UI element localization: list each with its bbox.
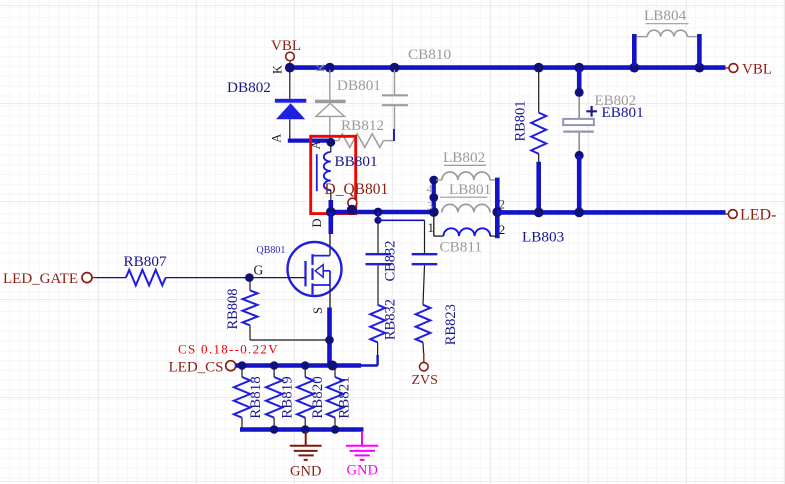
svg-text:K: K xyxy=(271,65,285,74)
svg-text:VBL: VBL xyxy=(271,38,301,54)
junction LED- at EB801 xyxy=(574,208,584,218)
junction LB right bus xyxy=(492,207,502,217)
resistor RB801 xyxy=(513,70,547,162)
svg-text:EB801: EB801 xyxy=(602,104,644,121)
wire DB802 anode to BB801 xyxy=(288,139,331,143)
svg-text:ZVS: ZVS xyxy=(412,373,438,388)
junction GND bus x=305.2 xyxy=(301,425,310,434)
svg-text:CS 0.18--0.22V: CS 0.18--0.22V xyxy=(178,342,279,357)
junction LED- at RB801 xyxy=(534,208,544,218)
resistor RB832 xyxy=(370,299,398,356)
ground GND (magenta) xyxy=(346,431,378,460)
svg-text:BB801: BB801 xyxy=(335,153,378,170)
junction GND bus x=274.1 xyxy=(270,425,279,434)
junction sub-wire CB832 xyxy=(374,217,381,224)
diode DB801 (DNP) xyxy=(313,63,381,139)
svg-text:3: 3 xyxy=(427,199,433,213)
resistor RB820 xyxy=(297,368,326,430)
wire LB right tie xyxy=(495,178,500,239)
inductor LB801 (DNP) xyxy=(427,181,505,213)
svg-text:LED_CS: LED_CS xyxy=(169,360,224,376)
resistor RB819 xyxy=(266,368,295,430)
svg-text:RB820: RB820 xyxy=(310,376,326,419)
junction LB left top xyxy=(429,176,438,185)
wire QB801 source xyxy=(327,308,332,366)
resistor RB808 xyxy=(225,278,258,340)
resistor RB823 xyxy=(416,304,459,353)
svg-text:LB803: LB803 xyxy=(522,229,564,246)
junction LB left mid xyxy=(429,193,438,202)
highlight box (red) around BB801 xyxy=(311,136,356,213)
svg-text:DB801: DB801 xyxy=(337,77,381,94)
junction GND bus x=335 xyxy=(331,425,340,434)
port D_QB801 xyxy=(348,198,357,210)
svg-text:RB832: RB832 xyxy=(383,299,399,340)
port LED_GATE xyxy=(3,271,97,287)
inductor LB804 (DNP) xyxy=(637,7,698,37)
wire LB804 right stub xyxy=(697,34,702,66)
resistor RB812 (DNP) xyxy=(331,117,394,147)
svg-text:RB808: RB808 xyxy=(225,288,241,329)
svg-text:G: G xyxy=(254,262,264,277)
svg-text:RB819: RB819 xyxy=(279,376,295,419)
wire sub-branch caps xyxy=(378,212,425,253)
wire RB808 to source xyxy=(250,339,330,341)
svg-text:RB801: RB801 xyxy=(513,100,529,141)
wire LB804 left stub xyxy=(632,34,637,66)
svg-text:RB818: RB818 xyxy=(248,376,264,419)
wire RB807 to gate xyxy=(166,277,306,279)
wire drain bus xyxy=(329,210,434,215)
svg-text:1: 1 xyxy=(428,220,435,235)
inductor LB802 (DNP) xyxy=(427,149,497,196)
wire VBL top bus xyxy=(288,65,726,70)
svg-text:LB804: LB804 xyxy=(644,7,687,24)
junction top bus x=579.2 xyxy=(574,63,584,73)
svg-text:LB802: LB802 xyxy=(443,149,485,166)
diode DB802 xyxy=(227,65,306,143)
svg-text:CB832: CB832 xyxy=(383,240,399,281)
svg-text:DB802: DB802 xyxy=(227,79,271,96)
svg-text:RB823: RB823 xyxy=(443,304,459,345)
junction drain bus at port xyxy=(347,205,357,215)
junction top bus x=329.8 xyxy=(325,63,335,73)
svg-text:A: A xyxy=(309,140,323,149)
port LED_CS xyxy=(169,360,236,376)
resistor RB807 xyxy=(124,253,167,285)
svg-text:LED_GATE: LED_GATE xyxy=(3,271,78,287)
svg-text:QB801: QB801 xyxy=(257,245,286,256)
svg-text:VBL: VBL xyxy=(742,62,772,78)
wire EB801 bottom xyxy=(577,155,582,212)
junction gate node xyxy=(245,273,254,282)
port VBL (top) xyxy=(271,38,301,66)
svg-text:RB821: RB821 xyxy=(336,376,352,419)
wire QB801 drain xyxy=(328,212,333,256)
capacitor CB811 xyxy=(412,239,482,305)
junction CS bus x=305.2 xyxy=(301,361,310,370)
junction CS bus x=242 xyxy=(238,361,247,370)
inductor BB801 xyxy=(309,138,378,201)
svg-text:D: D xyxy=(310,218,324,227)
junction top bus x=394.5 xyxy=(390,63,400,73)
svg-text:RB807: RB807 xyxy=(124,253,167,270)
inductor LB803 xyxy=(428,214,565,246)
svg-text:LB801: LB801 xyxy=(449,181,491,198)
port LED- xyxy=(725,207,776,224)
transistor QB801 xyxy=(257,242,342,308)
junction drain bus at BB801 xyxy=(326,207,336,217)
port VBL (right) xyxy=(725,62,772,78)
junction drain bus at CB832 xyxy=(374,208,383,217)
wire LED_GATE to RB807 xyxy=(97,277,126,279)
capacitor CB832 xyxy=(366,220,399,304)
svg-text:RB812: RB812 xyxy=(341,117,384,134)
svg-text:A: A xyxy=(270,134,284,143)
wire CS bus thin end xyxy=(361,355,378,366)
resistor RB818 xyxy=(234,368,264,430)
junction CS bus source xyxy=(328,361,338,371)
svg-text:S: S xyxy=(311,307,325,314)
svg-text:2: 2 xyxy=(499,222,506,237)
svg-text:CB810: CB810 xyxy=(408,46,451,63)
capacitor CB810 (DNP) xyxy=(382,46,452,129)
wire GND bus xyxy=(240,427,364,432)
ground GND (dark red) xyxy=(290,431,322,460)
svg-text:GND: GND xyxy=(290,464,321,480)
junction top bus x=289.8 xyxy=(285,63,295,73)
junction CS bus x=274.1 xyxy=(270,361,279,370)
wire LED- bus xyxy=(497,210,725,215)
junction LB left bus xyxy=(429,207,439,217)
junction source/RB808 xyxy=(325,336,334,345)
wire LB left tie xyxy=(432,178,436,212)
svg-text:GND: GND xyxy=(347,463,378,479)
capacitor EB801 (EB802 DNP alt) xyxy=(563,70,644,160)
svg-text:K: K xyxy=(313,63,327,72)
wire CS bus xyxy=(236,363,361,368)
wire RB801 bottom xyxy=(536,162,541,212)
svg-text:4: 4 xyxy=(427,182,433,196)
svg-text:D_QB801: D_QB801 xyxy=(325,181,389,198)
port ZVS xyxy=(412,353,438,388)
svg-text:CB811: CB811 xyxy=(440,239,482,256)
wire stub blue RB812-CB810 xyxy=(393,129,395,141)
junction top bus x=634.3 xyxy=(629,63,639,73)
resistor RB821 xyxy=(327,368,353,430)
wire BB801 bottom to bus xyxy=(328,200,333,212)
svg-text:LED-: LED- xyxy=(740,207,776,224)
junction top bus x=699.4 xyxy=(695,63,705,73)
junction top bus x=538.7 xyxy=(534,63,544,73)
